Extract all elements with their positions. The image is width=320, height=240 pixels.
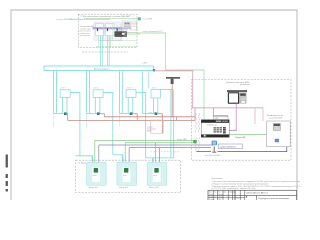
junction at bus right end: [153, 69, 155, 71]
svg-text:Лист: Лист: [218, 191, 221, 193]
svg-text:Кол: Кол: [214, 191, 217, 193]
svg-text:Подп: Подп: [229, 191, 233, 193]
svg-text:цепи управл.: цепи управл.: [80, 35, 91, 37]
UPS group 3: [119, 71, 145, 158]
title block: [208, 190, 297, 201]
svg-text:Насос №2: Насос №2: [119, 186, 128, 189]
green link panel to cabinet: [229, 133, 266, 135]
svg-text:ИБП2: ИБП2: [94, 88, 99, 90]
svg-text:Структурная схема автоматизаци: Структурная схема автоматизации: [258, 198, 289, 200]
red bus 2: [68, 119, 195, 121]
pump drops green/navy: [95, 140, 156, 168]
tab above panel: [213, 116, 228, 120]
pink line to dispatcher/cabinet: [155, 71, 193, 108]
svg-text:Н.контр: Н.контр: [209, 199, 214, 200]
UPS group 1: [54, 71, 80, 156]
wire: bus stub to box4: [148, 71, 150, 89]
zigzag cable marks: [195, 113, 196, 132]
power bus (распределительный щит): [44, 66, 154, 71]
wire: incoming mains cyan: [69, 18, 110, 20]
svg-text:Примечания:: Примечания:: [212, 178, 223, 180]
dispatcher dashed box: [191, 80, 291, 161]
svg-text:насос: насос: [153, 175, 157, 177]
svg-text:Разраб: Разраб: [209, 194, 214, 196]
svg-text:ИБП1: ИБП1: [61, 88, 66, 90]
svg-text:Дата: Дата: [233, 191, 236, 193]
contactor panel lavender: [94, 22, 122, 40]
margin stamp text (rotated): [6, 155, 8, 192]
svg-text:сеть Ethernet 100M: сеть Ethernet 100M: [205, 154, 221, 157]
svg-text:коммутатор Ethernet: коммутатор Ethernet: [220, 146, 237, 149]
UPS group 4: [142, 71, 173, 158]
svg-text:Проверил: Проверил: [209, 196, 216, 198]
terminal: output to net: [137, 18, 139, 20]
ethernet navy line: [196, 147, 286, 152]
svg-text:ИБП4: ИБП4: [152, 87, 157, 89]
svg-text:по ГОСТ 12.1.030, сети Etherne: по ГОСТ 12.1.030, сети Ethernet - кабеле…: [212, 187, 256, 190]
svg-text:Док: Док: [224, 191, 227, 193]
notes text: [212, 178, 311, 190]
svg-text:реле РВ-1 РВ-2: реле РВ-1 РВ-2: [117, 29, 129, 31]
svg-text:ИБП3: ИБП3: [127, 88, 132, 90]
switch icon blue: [212, 141, 217, 146]
dashed teal stub left of ethernet line: [151, 151, 181, 153]
pink link device to cabinet: [262, 108, 264, 121]
switch label chip: [218, 144, 242, 149]
pink link device to panel: [229, 103, 236, 130]
operator panel HMI: [201, 120, 229, 138]
svg-text:насос: насос: [93, 175, 97, 177]
breaker QF1: [96, 24, 104, 36]
relay chip white: [131, 22, 137, 30]
wires: breakers down to bus (cyan doubles): [100, 36, 109, 66]
green line from cabinet to dispatcher: [137, 33, 204, 120]
controller module dark: [115, 31, 128, 37]
pump 2: [117, 162, 137, 189]
svg-text:ЩО-1: ЩО-1: [147, 131, 151, 133]
workstation device: [227, 90, 247, 103]
svg-text:Лист: Лист: [236, 198, 240, 200]
svg-text:ГИП: ГИП: [218, 199, 221, 200]
pump room dashed box: [76, 160, 181, 192]
breaker QF2: [106, 24, 114, 36]
label: left text block: [80, 25, 95, 37]
svg-text:Петров: Петров: [218, 196, 223, 198]
pump 1: [87, 162, 107, 189]
control cabinet: [267, 114, 291, 147]
cabinet ЩАУ dashed box: [78, 14, 137, 47]
dashed segment below box: [82, 51, 128, 53]
svg-text:к сети 380В: к сети 380В: [143, 19, 153, 21]
svg-text:Насос №3: Насос №3: [149, 186, 158, 189]
T tap symbol: [166, 77, 180, 79]
svg-text:220.15-ИОС7.1-АТХ.С1: 220.15-ИОС7.1-АТХ.С1: [246, 192, 268, 195]
wire: green overlay on incoming: [84, 17, 137, 19]
svg-text:Иванов: Иванов: [218, 194, 223, 196]
dashed subpanel: [123, 20, 137, 33]
pump 3: [147, 162, 167, 189]
red riser to tab: [192, 108, 264, 121]
svg-text:7.2 Щит автоматики и управлени: 7.2 Щит автоматики и управления насосами…: [80, 15, 131, 18]
svg-text:к щиту автоматики ИТП: к щиту автоматики ИТП: [143, 31, 163, 33]
svg-text:RS-485: RS-485: [230, 130, 236, 132]
bus purple halo: [93, 27, 123, 30]
svg-text:Щит распределит.: Щит распределит.: [94, 68, 110, 70]
red drop from tap: [171, 84, 173, 117]
cyan feeders to pumps: [76, 155, 174, 158]
UPS group 2: [87, 71, 113, 155]
callout red box: [151, 120, 164, 133]
green control wires inside cabinet: [96, 24, 137, 48]
svg-text:диспетчера: диспетчера: [240, 84, 250, 86]
svg-text:Модуль GSM: Модуль GSM: [236, 137, 246, 139]
svg-text:SCADA вода: SCADA вода: [207, 123, 217, 126]
border frame: [11, 10, 297, 200]
red bus 1: [104, 116, 195, 118]
relay chip gray: [124, 22, 130, 27]
green buses to pumps: [95, 139, 194, 141]
svg-text:насос: насос: [123, 175, 127, 177]
contact dots: [97, 28, 118, 31]
navy buses to pumps: [99, 144, 213, 146]
svg-text:кабель КВВГ: кабель КВВГ: [177, 139, 187, 141]
svg-text:Изм: Изм: [209, 191, 212, 193]
svg-text:Насос №1: Насос №1: [89, 186, 98, 189]
svg-text:насосами ШУН: насосами ШУН: [269, 118, 283, 120]
